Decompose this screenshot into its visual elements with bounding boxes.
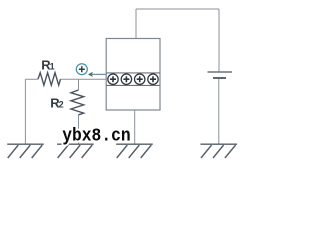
svg-text:1: 1 [50,62,55,72]
svg-text:ybx8.cn: ybx8.cn [62,126,131,146]
svg-text:2: 2 [59,100,64,110]
